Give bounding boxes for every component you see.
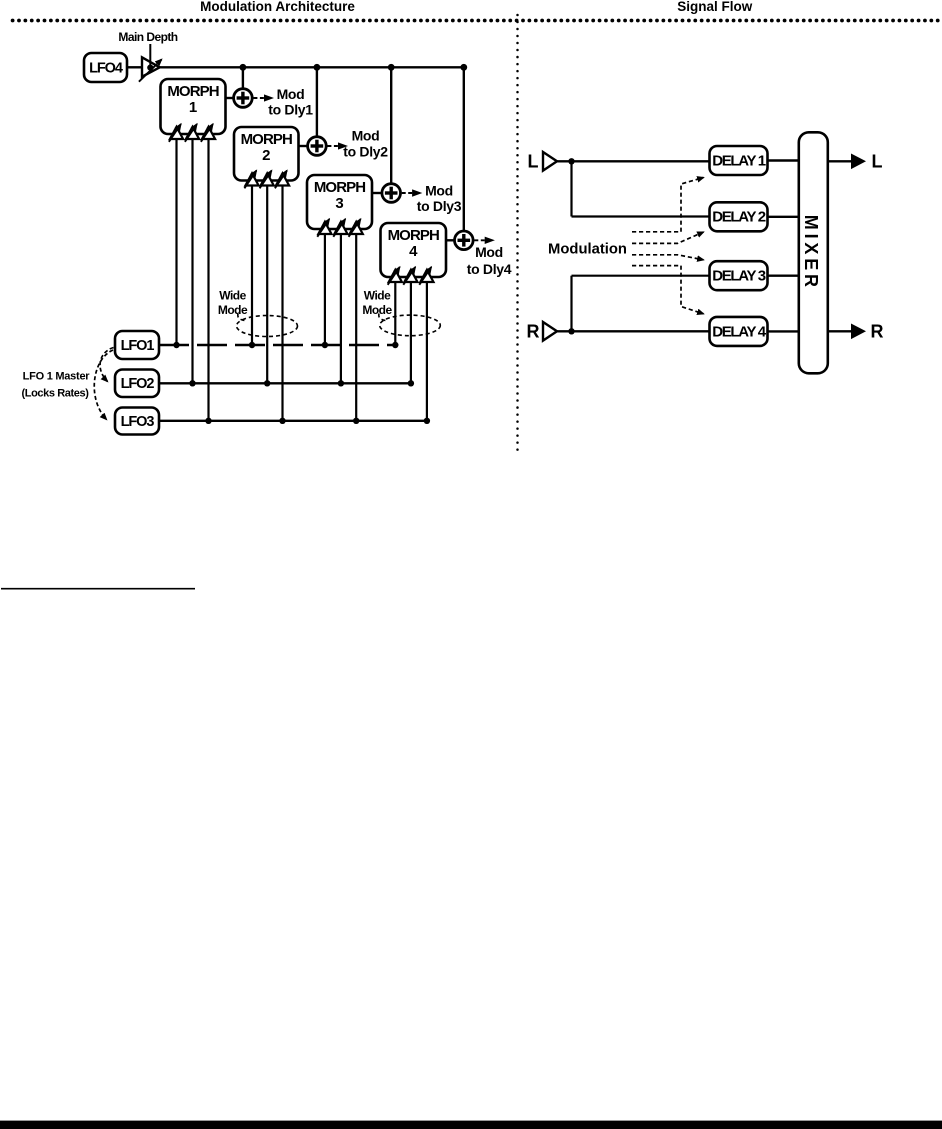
svg-text:Mod: Mod [352,128,380,144]
svg-text:Signal Flow: Signal Flow [677,0,753,14]
svg-text:Modulation: Modulation [548,241,627,257]
svg-text:DELAY 2: DELAY 2 [712,209,766,226]
svg-text:R: R [527,322,540,342]
svg-text:Wide: Wide [364,289,391,303]
svg-text:Main Depth: Main Depth [118,30,177,44]
svg-text:MORPH: MORPH [241,131,292,148]
svg-text:3: 3 [335,195,343,212]
svg-text:4: 4 [409,243,418,260]
svg-text:LFO1: LFO1 [121,338,155,354]
svg-text:Mod: Mod [277,86,305,102]
svg-text:R: R [871,322,884,342]
svg-text:Wide: Wide [219,289,246,303]
svg-text:Modulation Architecture: Modulation Architecture [200,0,355,14]
svg-text:to Dly3: to Dly3 [417,198,462,214]
svg-text:L: L [528,152,539,172]
svg-text:DELAY 4: DELAY 4 [712,323,767,340]
svg-text:to Dly1: to Dly1 [268,102,313,118]
svg-text:Mode: Mode [362,303,392,317]
svg-text:MORPH: MORPH [388,227,439,244]
svg-text:to Dly2: to Dly2 [343,144,388,160]
svg-text:L: L [872,152,883,172]
svg-text:Mod: Mod [475,244,503,260]
svg-text:LFO4: LFO4 [89,60,123,76]
svg-text:Mod: Mod [425,183,453,199]
svg-text:(Locks Rates): (Locks Rates) [22,388,90,400]
svg-text:Mode: Mode [218,303,248,317]
svg-text:LFO 1 Master: LFO 1 Master [23,371,91,383]
svg-text:MORPH: MORPH [314,179,365,196]
svg-text:to Dly4: to Dly4 [467,261,512,277]
svg-text:MORPH: MORPH [167,83,218,100]
svg-text:2: 2 [262,147,270,164]
svg-text:LFO2: LFO2 [121,376,155,392]
svg-text:MIXER: MIXER [801,215,821,291]
svg-text:DELAY 3: DELAY 3 [712,268,766,285]
svg-text:DELAY 1: DELAY 1 [712,152,766,169]
svg-text:1: 1 [189,99,197,116]
svg-text:LFO3: LFO3 [121,414,155,430]
